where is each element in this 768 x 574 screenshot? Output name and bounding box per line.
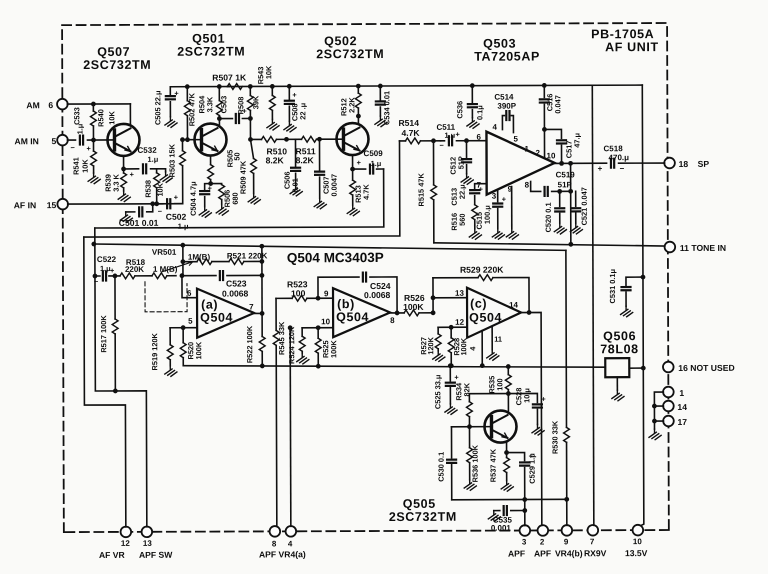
svg-text:Q504: Q504 (469, 311, 502, 325)
resistor R523 100 (292, 295, 307, 301)
ground R541 (88, 173, 100, 184)
svg-text:10K: 10K (156, 182, 165, 196)
svg-text:AF VR: AF VR (99, 550, 126, 560)
svg-text:22.μ: 22.μ (458, 184, 467, 199)
svg-text:RX9V: RX9V (584, 548, 607, 558)
resistor R545 33K (275, 298, 278, 526)
resistor R541 10K (92, 140, 94, 173)
terminal 4 (286, 526, 297, 537)
ground C528 (532, 424, 544, 435)
svg-text:1 M(B): 1 M(B) (153, 265, 178, 274)
svg-text:C514: C514 (494, 93, 514, 102)
svg-text:+: + (174, 89, 179, 98)
voltage regulator Q506 78L08 box (605, 358, 629, 377)
resistor R520 100K (182, 328, 184, 366)
capacitor C509 1u (353, 168, 384, 170)
svg-text:3.3K: 3.3K (205, 96, 214, 112)
svg-text:1.μ: 1.μ (444, 131, 455, 140)
svg-text:VR4(b): VR4(b) (555, 548, 583, 558)
wire output (c) to terminal 2 (521, 312, 542, 525)
wire R514 column to AF VR line (83, 141, 399, 237)
svg-text:1.μ: 1.μ (371, 159, 382, 168)
resistor R525 100K (317, 328, 319, 366)
svg-text:14: 14 (677, 402, 687, 412)
svg-text:C519: C519 (556, 170, 576, 179)
wire bracket terminals 1,14,17 (654, 392, 663, 421)
terminal 1 (663, 387, 674, 398)
svg-text:Q502: Q502 (324, 34, 357, 48)
ground R513 (347, 205, 359, 216)
svg-text:100.μ: 100.μ (483, 205, 492, 224)
svg-text:470.μ: 470.μ (609, 153, 630, 162)
wire Q505 base line (451, 426, 491, 428)
svg-text:+: + (86, 144, 91, 153)
terminal 3 APF (520, 525, 531, 536)
svg-text:4.7K: 4.7K (362, 184, 371, 200)
svg-text:−: − (94, 277, 99, 286)
svg-text:12: 12 (121, 539, 130, 548)
svg-text:C501 0.01: C501 0.01 (119, 218, 159, 228)
capacitor C507 0.0047 (317, 137, 322, 142)
terminal 8 (270, 526, 281, 537)
ground for 1/14/17 (653, 421, 655, 429)
resistor R538 10K (156, 169, 158, 204)
wire Q505 collector (507, 394, 509, 414)
svg-text:8: 8 (272, 539, 277, 548)
svg-text:+: + (455, 130, 460, 139)
svg-text:+: + (541, 394, 546, 403)
svg-text:APF SW: APF SW (139, 550, 173, 560)
svg-text:C505 22.μ: C505 22.μ (153, 90, 162, 125)
ground R506 (216, 205, 228, 216)
ground R524 (297, 353, 309, 364)
wire feedback column x=262 (261, 246, 263, 313)
svg-text:120K: 120K (426, 336, 435, 354)
resistor R521 220K (229, 259, 244, 265)
capacitor C502 1u (157, 203, 183, 205)
svg-text:18: 18 (679, 159, 689, 169)
svg-text:VR501: VR501 (152, 248, 177, 257)
resistor R526 100K (404, 310, 419, 316)
svg-text:C531 0.1μ: C531 0.1μ (608, 268, 617, 303)
svg-text:C534 0.01: C534 0.01 (382, 91, 391, 125)
terminal 16 NOT USED (663, 362, 674, 373)
resistor R506 680 (211, 184, 222, 205)
svg-text:R522 100K: R522 100K (245, 325, 254, 363)
ground R527 (433, 351, 445, 362)
ground Q506 (616, 377, 618, 390)
svg-text:10: 10 (321, 317, 330, 326)
terminal 12 AF VR (121, 527, 132, 538)
svg-text:10K: 10K (264, 65, 273, 79)
svg-text:C509: C509 (364, 149, 384, 158)
wire Q505 emitter (506, 443, 508, 452)
resistor R513 4.7K (352, 169, 354, 205)
svg-text:+: + (174, 193, 179, 202)
svg-text:R537 47K: R537 47K (489, 448, 498, 482)
node R517 (113, 274, 118, 279)
svg-text:C536: C536 (455, 101, 464, 119)
svg-text:1.μ: 1.μ (148, 155, 159, 164)
resistor R507 1K on rail (227, 86, 229, 88)
svg-text:2SC732TM: 2SC732TM (389, 510, 457, 524)
ground R543 (267, 119, 279, 130)
node input junction (180, 273, 185, 278)
svg-text:100K: 100K (403, 302, 424, 312)
svg-text:AM: AM (26, 100, 39, 110)
wire pin 12 line (438, 326, 467, 328)
ground C505 (165, 117, 177, 128)
terminal 18 SP (664, 158, 675, 169)
svg-text:16 NOT USED: 16 NOT USED (678, 363, 734, 373)
svg-text:R515 47K: R515 47K (417, 173, 426, 207)
svg-text:R541: R541 (72, 157, 81, 175)
svg-text:+: + (110, 266, 115, 275)
svg-text:+: + (130, 170, 135, 179)
svg-text:15: 15 (47, 200, 57, 210)
potentiometer VR501 1M(B) (152, 273, 167, 279)
node AM6/R540 (91, 102, 96, 107)
svg-text:1.μ: 1.μ (178, 222, 189, 231)
wire to pin6 of (a) (182, 276, 197, 298)
ground C531 (621, 306, 633, 317)
resistor R516 560 (472, 205, 478, 220)
svg-text:Q503: Q503 (483, 37, 516, 51)
svg-text:100K: 100K (194, 341, 203, 359)
svg-text:+: + (357, 158, 362, 167)
svg-text:10: 10 (633, 537, 642, 546)
capacitor C521 0.047 (575, 191, 577, 223)
svg-text:R540: R540 (96, 109, 105, 127)
svg-text:R502 47K: R502 47K (187, 92, 196, 126)
resistor R527 120K (437, 327, 439, 350)
svg-text:2SC732TM: 2SC732TM (316, 47, 384, 61)
svg-text:C533: C533 (72, 107, 81, 125)
wire output loop right edge (570, 163, 572, 244)
resistor R511 8.2K (301, 136, 316, 142)
svg-text:(c): (c) (470, 297, 487, 311)
svg-text:AF UNIT: AF UNIT (605, 40, 659, 54)
wire AM 6 line (67, 103, 130, 105)
transistor Q502 (336, 123, 368, 155)
wire pin 7 / C513 22u (475, 184, 487, 205)
ground C507 (314, 198, 326, 209)
resistor R529 220K feedback (c) (433, 277, 529, 312)
wire feedback bottom line y=500 (452, 498, 567, 500)
svg-text:22 .μ: 22 .μ (298, 102, 307, 119)
wire 13.5V column to terminal 10 (640, 85, 644, 525)
resistor R539 3.3K (123, 169, 125, 191)
svg-text:R530 33K: R530 33K (550, 420, 559, 454)
ground C501 (120, 212, 132, 223)
svg-text:10: 10 (547, 151, 556, 160)
resistor R543 10K (270, 84, 275, 89)
svg-text:8: 8 (390, 316, 395, 325)
svg-text:13.5V: 13.5V (625, 548, 648, 558)
svg-text:47.μ: 47.μ (572, 132, 581, 147)
svg-text:Q504 MC3403P: Q504 MC3403P (287, 250, 384, 265)
svg-text:11: 11 (494, 335, 502, 344)
capacitor C508 22u (287, 84, 292, 89)
svg-text:1: 1 (525, 144, 530, 153)
resistor R528 100K (450, 327, 452, 365)
ground C506 (290, 185, 302, 196)
capacitor C525 33u (448, 363, 453, 368)
svg-text:3: 3 (522, 538, 527, 547)
svg-text:4: 4 (468, 346, 477, 351)
svg-text:C520 0.1: C520 0.1 (544, 202, 553, 232)
terminal 10 13.5V (633, 525, 644, 536)
resistor R512 2.2K (356, 84, 361, 89)
svg-text:R545 33K: R545 33K (277, 321, 286, 355)
wire pin 13 line (433, 297, 467, 299)
ground C534 (375, 116, 387, 127)
capacitor C504 4.7u (205, 184, 211, 207)
resistor R517 100K (114, 276, 116, 391)
capacitor C503 1u (219, 117, 250, 119)
svg-text:C503: C503 (219, 96, 228, 114)
transistor Q501 (194, 124, 226, 156)
resistor R534 82K (469, 394, 508, 427)
op-amp Q504 (a) (197, 288, 254, 337)
ground C508 (284, 121, 296, 132)
svg-text:R507 1K: R507 1K (212, 72, 247, 82)
svg-text:−: − (439, 141, 444, 150)
svg-text:R509 47K: R509 47K (239, 160, 248, 194)
svg-text:10K: 10K (107, 110, 116, 124)
node Q501 emitter (210, 156, 212, 165)
wire Q507 collector (129, 104, 131, 125)
svg-text:R538: R538 (144, 180, 153, 198)
svg-text:Q506: Q506 (603, 329, 636, 343)
svg-text:APF: APF (534, 548, 551, 558)
svg-text:Q504: Q504 (200, 311, 233, 325)
resistor R515 47K (432, 141, 434, 243)
svg-text:C504 4.7μ: C504 4.7μ (189, 181, 198, 216)
svg-text:10K: 10K (81, 159, 90, 173)
terminal 2 APF (538, 525, 549, 536)
capacitor C506 0.01 (294, 139, 296, 185)
svg-text:13: 13 (455, 289, 464, 298)
wire feedback line (a) (183, 260, 262, 262)
wire pin 5 line (170, 327, 197, 329)
svg-text:4.7K: 4.7K (401, 128, 420, 138)
svg-text:17: 17 (677, 417, 687, 427)
svg-text:+: + (502, 195, 507, 204)
svg-text:6: 6 (476, 133, 481, 142)
svg-text:12: 12 (455, 318, 464, 327)
ground R536 (464, 480, 476, 491)
svg-text:50: 50 (233, 152, 242, 160)
svg-text:R524 120K: R524 120K (287, 326, 296, 364)
svg-text:+: + (292, 90, 297, 99)
svg-text:C529 1.μ: C529 1.μ (528, 453, 537, 484)
svg-text:560: 560 (458, 214, 467, 226)
svg-text:SP: SP (698, 159, 710, 169)
capacitor C533 1u (80, 136, 83, 145)
wire VR4(a) column to terminal 4 (288, 325, 293, 330)
op-amp Q504 (b) (333, 288, 390, 337)
wire terminal 9 column (566, 499, 568, 525)
capacitor C505 22u (169, 87, 171, 117)
resistor R510 8.2K (261, 136, 276, 142)
svg-text:R536 100K: R536 100K (471, 444, 480, 482)
svg-text:+: + (208, 184, 213, 193)
svg-text:APF VR4(a): APF VR4(a) (259, 549, 306, 559)
pin 4 power wire (c) (481, 331, 483, 366)
svg-text:11 TONE IN: 11 TONE IN (680, 243, 726, 253)
wire Q506 output (629, 367, 643, 369)
svg-text:C518: C518 (604, 144, 624, 153)
wire mid supply rail y=366 (183, 364, 605, 368)
wire C509 down to APF switch line (95, 169, 384, 228)
capacitor C530 0.1 (450, 427, 452, 500)
svg-text:R529 220K: R529 220K (460, 265, 504, 275)
svg-text:7: 7 (590, 537, 595, 546)
capacitor C531 0.1u (641, 275, 646, 280)
ground pin 11 (487, 350, 499, 361)
svg-text:6: 6 (187, 289, 192, 298)
svg-text:1: 1 (679, 388, 684, 398)
svg-text:7: 7 (249, 302, 254, 311)
svg-text:C521 0.047: C521 0.047 (580, 187, 589, 225)
svg-text:100K: 100K (329, 340, 338, 358)
svg-text:0.001: 0.001 (491, 524, 512, 533)
resistor R505 50 (208, 165, 214, 180)
node base Q507 (91, 138, 96, 143)
capacitor C528 10u (508, 393, 537, 424)
wire AF VR column (84, 237, 126, 527)
svg-text:TA7205AP: TA7205AP (474, 49, 540, 63)
ground C525 (445, 404, 457, 415)
wire SP output line (555, 162, 665, 164)
dashed coupling box VR501 (145, 282, 187, 312)
capacitor C520 0.1 (557, 189, 562, 194)
svg-text:13: 13 (143, 539, 152, 548)
node Q501 collector (217, 116, 222, 121)
ground R539 (118, 191, 130, 202)
svg-text:Q507: Q507 (97, 45, 130, 59)
wire loop top line (94, 242, 566, 252)
ground C504 (199, 207, 211, 218)
svg-text:+: + (479, 185, 484, 194)
svg-text:APF: APF (508, 549, 525, 559)
capacitor C517 47u (542, 127, 547, 132)
wire APF SW column (95, 228, 147, 527)
transistor Q507 (107, 124, 139, 156)
capacitor C518 470u (611, 159, 614, 168)
board outline dashed border PB-1705A (62, 23, 669, 532)
svg-text:10.μ: 10.μ (522, 388, 531, 403)
svg-text:4: 4 (288, 539, 293, 548)
capacitor C534 0.01 (378, 84, 383, 89)
svg-text:AF IN: AF IN (14, 200, 36, 210)
resistor R502 47K (185, 84, 190, 89)
capacitor C512 51P (465, 141, 467, 174)
capacitor C532 1u (124, 168, 157, 170)
svg-text:R514: R514 (398, 118, 419, 128)
wire output (b) to R526 (390, 312, 433, 314)
svg-text:R519 120K: R519 120K (150, 332, 159, 370)
transistor Q505 (484, 411, 516, 443)
capacitor C501 0.01 (126, 204, 153, 212)
ground C512 (461, 174, 473, 185)
op-amp U Q503 triangle (486, 131, 554, 194)
svg-text:14: 14 (509, 301, 518, 310)
svg-text:8.2K: 8.2K (296, 155, 315, 165)
wire supply column to terminal 7 (592, 86, 594, 525)
svg-text:R503 15K: R503 15K (167, 143, 176, 177)
svg-text:2: 2 (536, 148, 541, 157)
svg-text:0.047: 0.047 (553, 95, 562, 114)
capacitor C524 0.0068 feedback (b) (318, 277, 397, 313)
svg-text:Q501: Q501 (192, 32, 225, 46)
svg-text:1M(B): 1M(B) (188, 253, 211, 262)
svg-text:2.2K: 2.2K (347, 97, 356, 113)
wire Q501 base (182, 139, 201, 141)
svg-text:8: 8 (525, 180, 530, 189)
svg-text:C523: C523 (226, 278, 247, 288)
resistor R518 220K (120, 273, 135, 279)
svg-text:2: 2 (540, 537, 545, 546)
resistor R530 33K (565, 250, 568, 499)
svg-text:5: 5 (51, 136, 56, 146)
svg-text:78L08: 78L08 (600, 342, 639, 356)
svg-text:C517: C517 (564, 141, 573, 159)
wire output (a) (254, 312, 262, 314)
svg-text:R508: R508 (236, 97, 245, 115)
ground C515 (492, 229, 504, 240)
ground C521 (570, 223, 582, 234)
svg-text:C522: C522 (97, 255, 117, 264)
wire TONE IN line (434, 242, 665, 247)
wire B+ rail (170, 85, 642, 87)
svg-text:3: 3 (492, 192, 497, 201)
svg-text:C502: C502 (166, 212, 187, 222)
svg-text:39K: 39K (251, 95, 260, 109)
wire input line (95, 275, 176, 277)
svg-text:−: − (620, 164, 625, 173)
svg-text:390P: 390P (497, 102, 516, 111)
node AF IN / C501 (150, 201, 155, 206)
svg-text:+: + (598, 164, 603, 173)
svg-text:0.0068: 0.0068 (222, 288, 249, 298)
terminal 14 (663, 401, 674, 412)
wire AF IN 15 line (68, 203, 183, 205)
svg-text:0.0047: 0.0047 (330, 174, 339, 197)
ground C532 right (157, 169, 166, 172)
ground R516 (469, 229, 481, 240)
op-amp Q504 (c) (467, 288, 521, 338)
svg-text:5: 5 (513, 135, 518, 144)
capacitor C535 0.001 (522, 508, 527, 513)
resistor R524 120K (301, 328, 303, 353)
svg-text:C530 0.1: C530 0.1 (437, 452, 446, 482)
terminal 7 RX9V (588, 525, 599, 536)
ground R537 (501, 481, 513, 492)
svg-text:100K: 100K (459, 337, 468, 355)
resistor R522 100K (261, 313, 263, 365)
svg-text:C532: C532 (138, 146, 158, 155)
capacitor C529 1u (507, 453, 525, 526)
wire base line Q502 (250, 138, 343, 140)
terminal 17 (663, 416, 674, 427)
resistor R537 47K (506, 453, 508, 481)
svg-text:0.0068: 0.0068 (364, 290, 391, 300)
wire R529 left column (432, 278, 434, 313)
ground C520 (554, 223, 566, 234)
resistor R535 100 (506, 364, 511, 369)
